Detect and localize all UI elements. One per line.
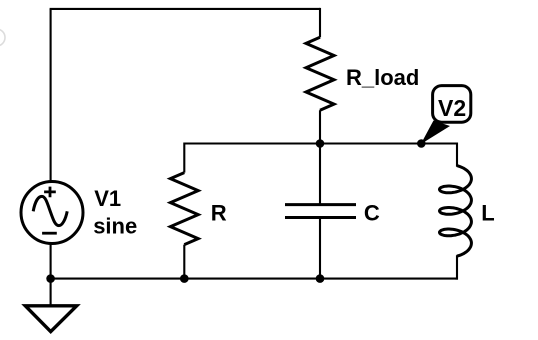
wire C bottom stub [319, 218, 321, 279]
wire middle rail right to inductor [421, 144, 457, 167]
V2 callout tail [421, 121, 450, 145]
resistor R [170, 173, 198, 245]
V2 callout box [433, 86, 471, 123]
wire bottom rail [51, 278, 458, 280]
node C bottom junction dot [316, 274, 325, 283]
svg-text:V1: V1 [94, 186, 121, 211]
node R bottom junction dot [180, 274, 189, 283]
wire V1 bottom to rail [50, 244, 52, 279]
node junction dot R_load/C [316, 139, 325, 148]
node bottom-left junction dot [46, 274, 55, 283]
faint artifact circle left edge [0, 29, 5, 46]
svg-text:V2: V2 [438, 95, 466, 121]
wire R top stub [183, 143, 185, 173]
svg-text:L: L [481, 201, 494, 226]
ground [25, 306, 76, 332]
svg-text:R: R [211, 201, 227, 226]
wire inductor bottom stub and corner [456, 255, 458, 278]
voltage source V1 circle [21, 182, 83, 244]
inductor L coil [440, 166, 472, 257]
wire top-left vertical [50, 9, 52, 182]
wire C top stub [319, 144, 321, 205]
svg-text:sine: sine [93, 214, 137, 239]
wire ground stem [50, 279, 52, 306]
capacitor C bottom plate [285, 216, 356, 219]
wire top horizontal [50, 8, 320, 10]
wire R_load bottom stub [319, 110, 321, 143]
V1 minus sign [42, 232, 57, 235]
resistor R_load [306, 37, 334, 110]
V1 plus sign [44, 187, 56, 198]
capacitor C top plate [285, 203, 356, 206]
svg-text:C: C [364, 201, 380, 226]
V1 sine wave [33, 196, 67, 225]
wire R_load top stub [319, 8, 321, 37]
wire R bottom stub [183, 245, 185, 279]
svg-text:R_load: R_load [346, 65, 419, 90]
wire middle rail [184, 142, 421, 144]
node V2 junction dot [417, 139, 426, 148]
